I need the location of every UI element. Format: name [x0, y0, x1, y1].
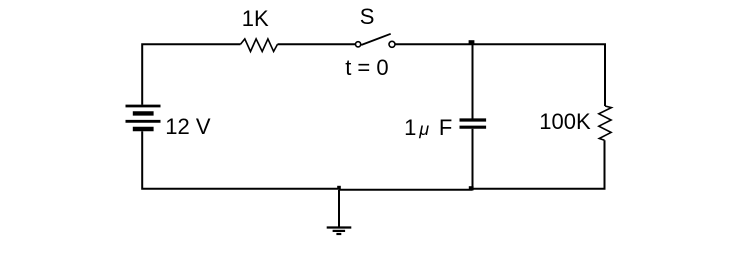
switch S [356, 34, 396, 48]
label 1K (resistor R1 value) [242, 8, 269, 30]
wire (resistor R1 to switch S) [278, 43, 356, 45]
resistor R2 (100K vertical zigzag) [599, 106, 612, 140]
wire (bottom: capacitor node to ground node, slightly lower) [339, 189, 473, 191]
label S (switch name) [360, 6, 375, 28]
resistor R1 (1K horizontal zigzag) [241, 39, 278, 52]
wire (switch S across top to right vertical, down to resistor R2) [395, 44, 605, 106]
label t = 0 (switch closing time) [345, 57, 388, 79]
wire (top-left: battery top up and across to resistor) [142, 44, 240, 105]
label 12 V (battery value) [165, 116, 210, 138]
wire (resistor R2 down to bottom-right corner, across bottom to capacitor node) [473, 140, 605, 189]
node B (bottom junction dot at ground stub) [337, 186, 341, 189]
capacitor C1 (1 uF) [460, 120, 487, 127]
battery V1 (12 V) [126, 106, 161, 129]
wire (capacitor branch: top node down to capacitor top plate) [472, 44, 474, 118]
node A (top junction dot at capacitor branch) [469, 40, 475, 44]
ground [327, 190, 352, 234]
wire (bottom-left: ground node to battery bottom) [142, 131, 339, 189]
label 100K (resistor R2 value) [539, 111, 590, 133]
wire (capacitor bottom plate down to bottom wire) [472, 129, 474, 190]
label 1 u F (capacitor value) [404, 117, 416, 139]
node C (bottom junction dot at capacitor branch) [469, 186, 474, 190]
